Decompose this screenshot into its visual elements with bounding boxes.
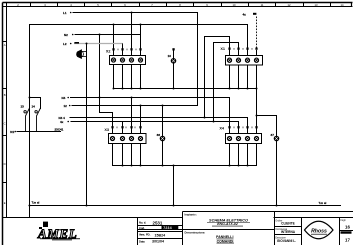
svg-text:3/01/04: 3/01/04 [152, 240, 164, 244]
svg-text:N2: N2 [64, 33, 68, 37]
svg-text:36: 36 [157, 133, 161, 137]
svg-text:INTERNA: INTERNA [281, 230, 296, 234]
svg-text:7234: 7234 [163, 226, 172, 230]
svg-text:L2: L2 [63, 42, 67, 46]
svg-text:10: 10 [168, 54, 172, 58]
svg-text:Vers. PD.: Vers. PD. [139, 233, 151, 237]
svg-text:X1: X1 [220, 47, 225, 51]
svg-text:10: 10 [233, 3, 236, 7]
svg-text:No. d.: No. d. [139, 221, 146, 225]
svg-text:N1: N1 [10, 130, 14, 134]
svg-text:37: 37 [271, 133, 275, 137]
svg-text:GIOVANNI L.: GIOVANNI L. [277, 239, 296, 243]
svg-text:E: E [4, 201, 6, 205]
svg-text:Cod.: Cod. [139, 226, 145, 230]
svg-text:Data: Data [139, 240, 145, 244]
svg-text:16: 16 [345, 224, 350, 229]
svg-text:T.m al: T.m al [32, 201, 40, 205]
svg-text:Num.: Num. [341, 233, 347, 235]
svg-text:12: 12 [64, 104, 68, 108]
svg-text:CLIENTE: CLIENTE [281, 222, 295, 226]
svg-text:17: 17 [345, 237, 350, 242]
svg-text:COMANDI: COMANDI [217, 239, 234, 243]
svg-text:B: B [4, 93, 6, 97]
svg-text:X2: X2 [106, 50, 111, 54]
svg-text:X3: X3 [104, 128, 109, 132]
svg-text:Fogli: Fogli [341, 220, 346, 222]
svg-text:Impianto:: Impianto: [185, 212, 197, 216]
svg-text:14: 14 [32, 104, 36, 108]
svg-text:A: A [4, 43, 6, 47]
svg-text:4x: 4x [243, 13, 247, 17]
svg-text:2531: 2531 [153, 220, 163, 225]
svg-text:4x: 4x [60, 120, 64, 124]
svg-text:N4: N4 [62, 96, 66, 100]
svg-text:Denominazione:: Denominazione: [185, 230, 206, 234]
svg-text:L1: L1 [63, 11, 67, 15]
svg-text:D: D [4, 162, 6, 166]
svg-text:14: 14 [341, 3, 344, 7]
svg-text:11: 11 [261, 3, 264, 7]
svg-text:Rhoss: Rhoss [311, 228, 327, 234]
svg-text:12: 12 [288, 3, 291, 7]
svg-text:T.m al: T.m al [319, 201, 327, 205]
svg-text:15B24: 15B24 [155, 233, 166, 237]
svg-text:13: 13 [315, 3, 318, 7]
svg-text:23C41: 23C41 [55, 127, 64, 131]
svg-text:13: 13 [21, 104, 25, 108]
svg-text:ENG-ATX-02: ENG-ATX-02 [217, 222, 238, 226]
svg-text:C: C [4, 122, 6, 126]
